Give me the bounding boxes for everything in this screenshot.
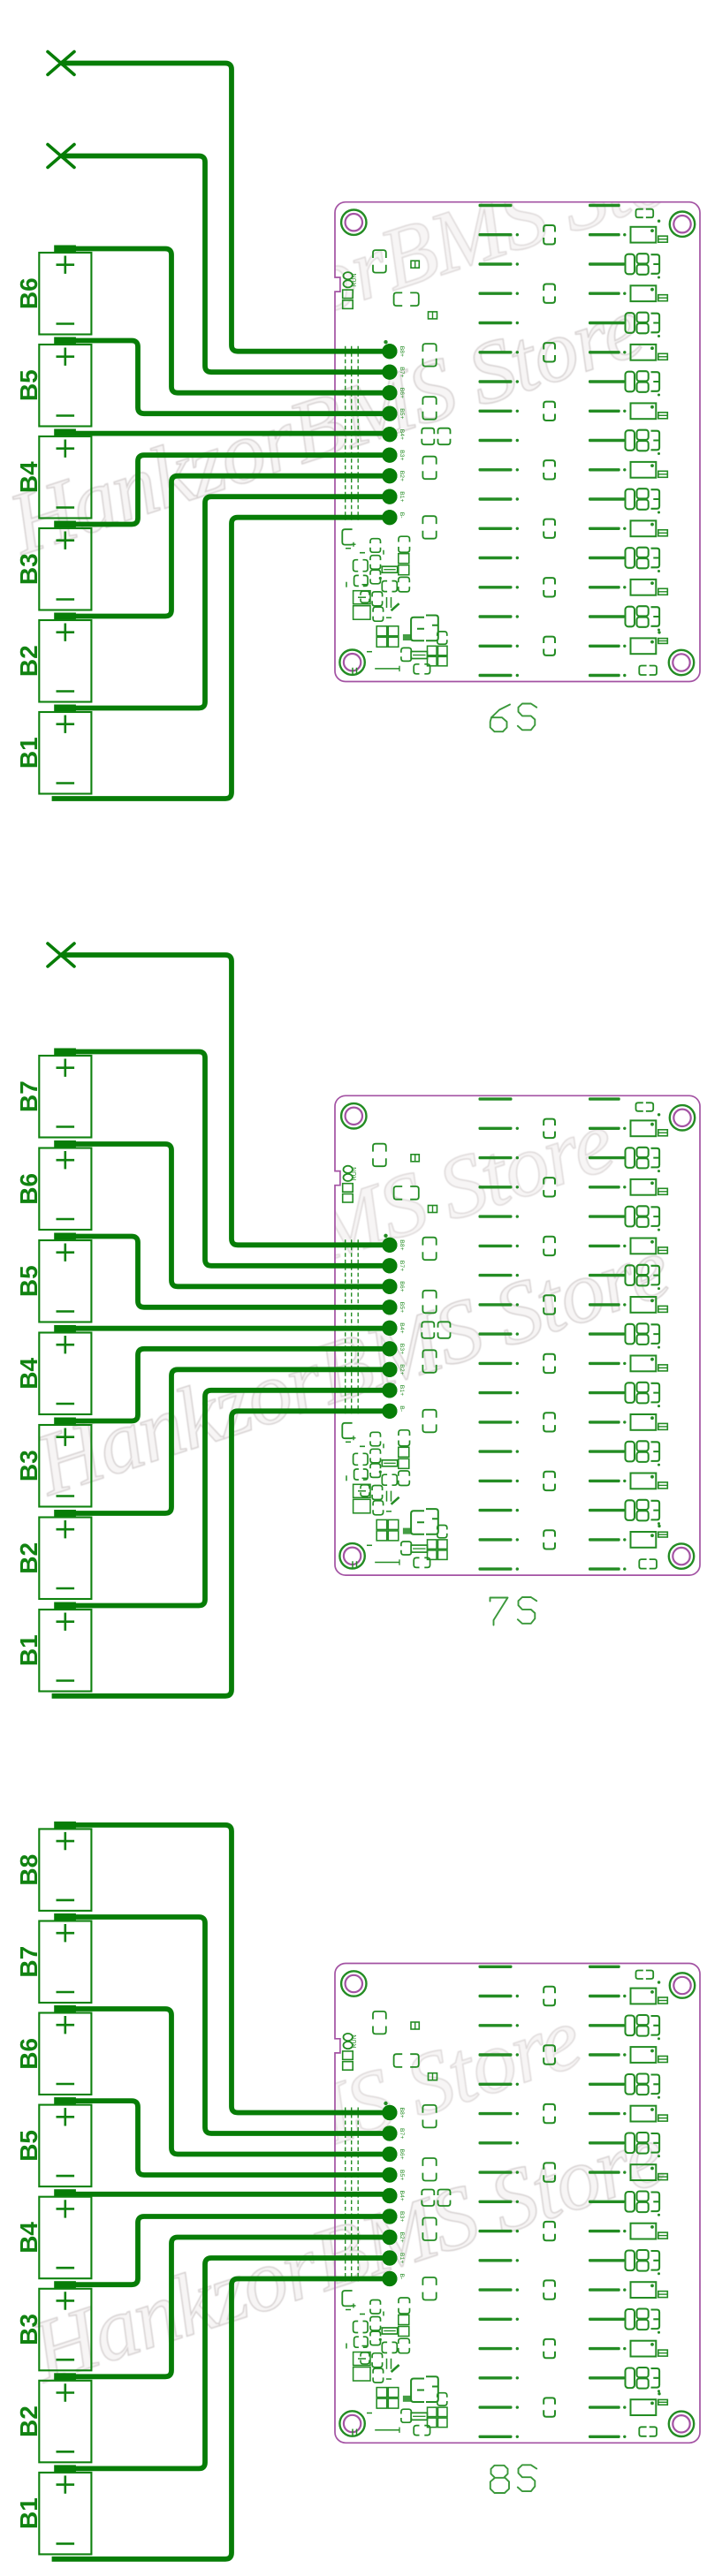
svg-text:B7: B7 — [15, 1080, 42, 1112]
svg-text:B3: B3 — [15, 553, 42, 585]
svg-text:B4: B4 — [15, 461, 42, 493]
svg-text:B1: B1 — [15, 2497, 42, 2529]
svg-text:B5: B5 — [15, 1265, 42, 1297]
svg-text:B6: B6 — [15, 2038, 42, 2070]
svg-text:B3: B3 — [15, 1450, 42, 1481]
svg-text:B4: B4 — [15, 1357, 42, 1389]
svg-text:B5: B5 — [15, 2130, 42, 2162]
svg-text:B2: B2 — [15, 645, 42, 677]
svg-text:B8: B8 — [15, 1854, 42, 1886]
svg-text:B4: B4 — [15, 2222, 42, 2254]
svg-text:B1: B1 — [15, 1634, 42, 1666]
svg-text:B5: B5 — [15, 369, 42, 401]
svg-text:B1: B1 — [15, 737, 42, 769]
svg-text:B6: B6 — [15, 1173, 42, 1205]
svg-text:B3: B3 — [15, 2314, 42, 2345]
svg-text:B7: B7 — [15, 1946, 42, 1978]
svg-text:B2: B2 — [15, 2406, 42, 2437]
svg-text:B6: B6 — [15, 277, 42, 309]
svg-text:B2: B2 — [15, 1542, 42, 1574]
